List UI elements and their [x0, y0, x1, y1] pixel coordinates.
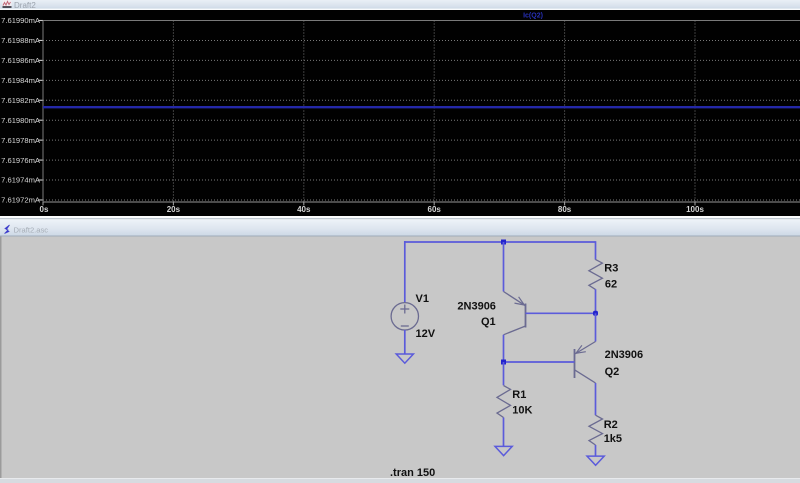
node junction top rail / Q1 emitter	[501, 240, 506, 245]
svg-text:Q1: Q1	[481, 316, 496, 328]
wire Q1 emitter	[503, 242, 505, 292]
wire V1 bottom	[404, 330, 406, 354]
svg-text:R2: R2	[604, 419, 618, 431]
resistor R2	[589, 415, 603, 445]
node junction R3 / Q1 base / Q2 emitter	[593, 311, 598, 316]
svg-text:V1: V1	[416, 293, 429, 305]
ground V1	[396, 354, 413, 363]
schematic background	[0, 237, 800, 479]
wire top rail	[405, 241, 596, 243]
svg-text:100s: 100s	[686, 205, 704, 214]
svg-text:7.61990mA: 7.61990mA	[1, 16, 41, 25]
wire R1 top	[503, 362, 505, 385]
svg-text:60s: 60s	[428, 205, 442, 214]
svg-text:R1: R1	[512, 389, 526, 401]
current trace	[43, 106, 800, 108]
wire V1 top	[404, 241, 406, 303]
svg-text:0s: 0s	[40, 205, 49, 214]
resistor R1	[497, 386, 511, 418]
x-axis labels	[40, 205, 705, 214]
wire Q2 base	[504, 361, 575, 363]
svg-text:2N3906: 2N3906	[605, 349, 644, 361]
voltage source V1	[391, 303, 418, 330]
svg-text:Q2: Q2	[605, 366, 620, 378]
svg-text:20s: 20s	[167, 205, 181, 214]
svg-text:7.61980mA: 7.61980mA	[1, 116, 41, 125]
svg-text:1k5: 1k5	[604, 433, 622, 445]
svg-text:7.61978mA: 7.61978mA	[1, 136, 41, 145]
ground R1	[495, 446, 512, 455]
wire Q2 collector	[595, 383, 597, 415]
wire Q1 collector down	[503, 335, 505, 362]
transistor Q2 (2N3906 PNP)	[575, 342, 596, 384]
node junction Q1 collector / Q2 base / R1	[501, 360, 506, 365]
waveform plot background	[0, 10, 800, 216]
svg-text:.tran 150: .tran 150	[390, 467, 435, 479]
plot grid vertical lines	[43, 21, 800, 203]
wire Q1 base to R3 node	[526, 312, 596, 314]
svg-text:7.61984mA: 7.61984mA	[1, 76, 41, 85]
svg-text:R3: R3	[604, 262, 618, 274]
svg-text:Draft2: Draft2	[14, 1, 36, 10]
wire R3 bottom	[595, 289, 597, 313]
plot window title bar	[0, 0, 800, 10]
svg-text:40s: 40s	[297, 205, 311, 214]
svg-text:7.61986mA: 7.61986mA	[1, 56, 41, 65]
svg-text:Ic(Q2): Ic(Q2)	[523, 13, 543, 20]
svg-text:62: 62	[605, 279, 617, 291]
resistor R3	[589, 259, 603, 289]
svg-text:2N3906: 2N3906	[457, 300, 496, 312]
schematic window icon	[5, 225, 10, 234]
schematic window title bar	[0, 216, 800, 237]
svg-text:7.61972mA: 7.61972mA	[1, 196, 41, 205]
ground R2	[587, 456, 604, 465]
plot grid horizontal lines	[43, 21, 800, 200]
plot window icon	[3, 0, 12, 8]
wire R2 bottom	[595, 445, 597, 456]
svg-text:10K: 10K	[512, 404, 532, 416]
svg-text:7.61988mA: 7.61988mA	[1, 36, 41, 45]
y-axis labels	[1, 16, 41, 204]
svg-text:80s: 80s	[558, 205, 572, 214]
x-axis tick dashes	[43, 202, 695, 205]
svg-text:7.61982mA: 7.61982mA	[1, 96, 41, 105]
svg-text:7.61974mA: 7.61974mA	[1, 176, 41, 185]
svg-text:12V: 12V	[416, 328, 436, 340]
wire Q2 emitter	[595, 313, 597, 341]
wire R3 top	[595, 241, 597, 259]
transistor Q1 (2N3906 PNP)	[504, 292, 526, 335]
svg-text:7.61976mA: 7.61976mA	[1, 156, 41, 165]
wire R1 bottom	[503, 418, 505, 447]
svg-text:Draft2.asc: Draft2.asc	[14, 225, 49, 234]
y-axis tick dashes	[39, 21, 43, 200]
